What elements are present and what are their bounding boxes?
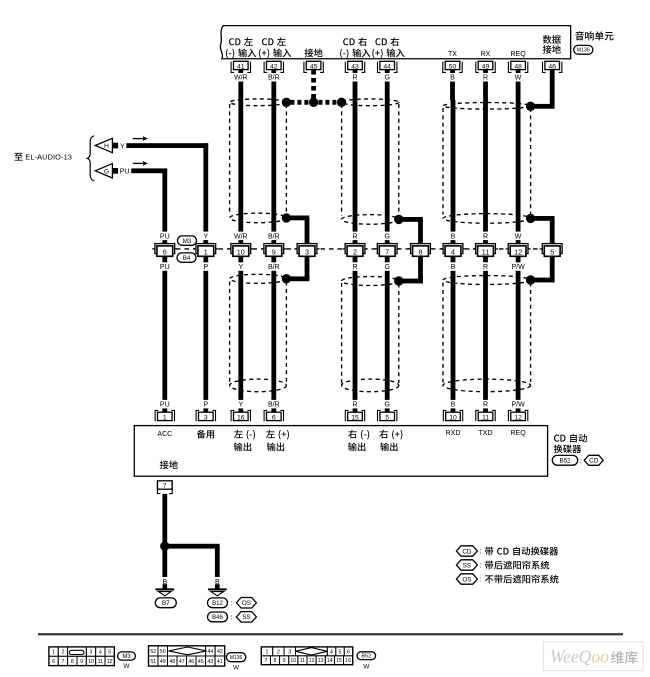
wire colour label P/W (below connector row) (512, 262, 524, 271)
connector oval M136 (footer) (226, 653, 245, 662)
legend text 带后遮阳帘系统 (485, 561, 549, 570)
svg-text:3: 3 (204, 414, 208, 421)
legend tag CD (456, 546, 477, 556)
pin 12 of CD changer (508, 410, 527, 421)
svg-text:5: 5 (385, 414, 389, 421)
svg-text:W/R: W/R (234, 233, 248, 240)
wire colour label B/R (top) (268, 73, 280, 82)
legend tag SS (456, 560, 477, 570)
svg-text:W: W (515, 75, 522, 82)
svg-text:RXD: RXD (446, 430, 461, 437)
label CD left (+) input (262, 37, 286, 45)
svg-text:3: 3 (90, 650, 93, 656)
svg-text:B: B (450, 75, 455, 82)
wire colour label R (top) (352, 73, 359, 82)
wire colour label G (bottom) (384, 400, 391, 409)
svg-text:6: 6 (52, 659, 55, 665)
svg-text:41: 41 (217, 659, 223, 665)
wire colour label Y (below connector row) (237, 262, 244, 271)
svg-text:B: B (451, 264, 456, 271)
svg-text:WeeQoo: WeeQoo (550, 646, 609, 666)
wire colour label R (above connector row) (352, 232, 359, 241)
in-line connector terminal 11 (473, 248, 476, 250)
legend text 不带后遮阳帘系统 (485, 575, 559, 584)
svg-text:8: 8 (71, 659, 74, 665)
wire R pin49 to connector11 to pin11 (col H) (483, 70, 488, 244)
shield cylinder lower-middle (341, 283, 343, 384)
svg-text:2: 2 (61, 650, 64, 656)
svg-text:B12: B12 (212, 601, 223, 607)
svg-text:2: 2 (353, 247, 357, 256)
jumper middle shield to connector 8 (below row) (394, 276, 403, 285)
CD auto changer box (134, 426, 547, 477)
svg-text:3: 3 (305, 247, 309, 256)
label left(-) output (234, 430, 255, 440)
wire colour label P (below connector row) (202, 262, 209, 271)
svg-text:M136: M136 (230, 655, 243, 661)
svg-text:W: W (515, 233, 522, 240)
wire colour label R (top) (482, 73, 489, 82)
connector oval M3 (178, 236, 197, 245)
in-line connector terminal 3 (294, 248, 297, 250)
connector layout B52 (CD changer 16-pin) (261, 647, 272, 656)
label ground (接地) pin45 (305, 49, 323, 58)
in-line connector terminal 12 (506, 248, 509, 250)
in-line connector terminal 8 (408, 248, 411, 250)
svg-text:7: 7 (264, 658, 267, 664)
svg-text:REQ: REQ (511, 430, 527, 437)
svg-text:4: 4 (330, 649, 333, 655)
svg-text:TXD: TXD (479, 430, 493, 437)
svg-text:B: B (451, 402, 456, 409)
wire P connector1 down to pin3 (203, 256, 208, 411)
svg-text:R: R (352, 233, 357, 240)
svg-text:48: 48 (514, 63, 522, 70)
ground name oval B7 (155, 598, 176, 608)
shield cylinder upper-right (around B,R,W) (442, 108, 444, 215)
svg-text:11: 11 (98, 659, 103, 665)
svg-text:EL-AUDIO-13: EL-AUDIO-13 (25, 152, 72, 161)
svg-text:R: R (352, 75, 357, 82)
svg-text:48: 48 (169, 659, 175, 665)
wire B/R pin42 to connector9 to pin6 (col D) (271, 70, 276, 244)
svg-text:5: 5 (550, 247, 554, 256)
svg-text:9: 9 (80, 659, 83, 665)
svg-text:PU: PU (160, 264, 170, 271)
wire colour label G (top) (384, 73, 391, 82)
wire PU from triangle G to connector 6 (131, 168, 167, 173)
jumper left shield to connector 3 (below row) (282, 274, 291, 283)
wire Y from triangle H to connector 1 (126, 143, 208, 148)
pin 44 of audio unit (378, 62, 397, 73)
brace (87, 136, 94, 181)
wire colour label PU (bottom) (160, 400, 170, 409)
svg-text:W: W (363, 664, 370, 671)
wire W pin48 to connector12 to pin12 (col I) (516, 70, 521, 244)
svg-text:H: H (104, 143, 109, 150)
svg-text:42: 42 (217, 649, 223, 655)
svg-text:43: 43 (207, 659, 213, 665)
wire colour label B (bottom) (450, 400, 457, 409)
svg-text:14: 14 (327, 658, 333, 664)
svg-text:15: 15 (336, 658, 342, 664)
connector oval M3 (footer) (118, 652, 136, 660)
svg-text:PU: PU (120, 169, 130, 176)
svg-text:B/R: B/R (268, 264, 280, 271)
option tag OS (236, 598, 256, 609)
svg-text:12: 12 (107, 659, 113, 665)
svg-text::: : (231, 615, 233, 622)
svg-text:G: G (384, 264, 389, 271)
svg-text:P/W: P/W (511, 264, 525, 271)
svg-text:4: 4 (99, 650, 102, 656)
legend tag OS (456, 574, 477, 584)
label CD left (-) input (229, 37, 253, 45)
wire colour label P (bottom) (202, 400, 209, 409)
svg-text:43: 43 (351, 63, 359, 70)
wire colour label W/R (above connector row) (235, 232, 247, 241)
svg-text:45: 45 (198, 659, 204, 665)
pin 6 of CD changer (264, 410, 283, 421)
label CD right (+) input (375, 37, 399, 46)
svg-text:B/R: B/R (268, 233, 280, 240)
wire colour label P/W (bottom) (512, 400, 524, 409)
wire colour label PU (below connector row) (160, 262, 170, 271)
ground name oval B46 (208, 612, 228, 622)
ground name oval B12 (208, 598, 228, 608)
svg-text:10: 10 (449, 414, 457, 421)
audio unit box (音响单元) (220, 26, 570, 59)
in-line connector terminal 2 (342, 248, 345, 250)
jumper right shield to connector 5 (below row) (526, 275, 535, 284)
wire colour label B (top) (449, 73, 456, 82)
svg-text:11: 11 (482, 247, 489, 256)
pin 50 of audio unit (443, 62, 462, 73)
page connector triangle H (95, 138, 112, 152)
svg-text:W: W (123, 663, 130, 670)
arrow (direction) on PU wire (133, 162, 143, 164)
pin 1 of CD changer (155, 410, 174, 421)
connector oval B52 (footer) (357, 652, 376, 660)
ground symbol right (215, 584, 220, 588)
svg-text:P: P (203, 402, 208, 409)
svg-text:B52: B52 (361, 654, 371, 660)
wire colour label PU (above connector row) (160, 232, 170, 241)
label right(-) output (348, 430, 369, 440)
svg-text:M3: M3 (183, 238, 192, 245)
pin 16 of CD changer (231, 410, 250, 421)
wire colour label R (bottom) (352, 400, 359, 409)
svg-text:44: 44 (208, 649, 214, 655)
in-line connector terminal 1 (193, 248, 196, 250)
svg-text:Y: Y (238, 264, 243, 271)
in-line connector terminal 7 (375, 248, 378, 250)
wire colour label W (above connector row) (515, 232, 522, 241)
svg-text:SS: SS (463, 562, 471, 569)
wire colour label G (above connector row) (384, 232, 391, 241)
ground wire B with junction (162, 494, 167, 577)
svg-text:3: 3 (288, 649, 291, 655)
svg-text:CD: CD (462, 548, 472, 555)
svg-text:R: R (352, 264, 357, 271)
in-line connector terminal 4 (440, 248, 443, 250)
pin 42 of audio unit (264, 62, 283, 73)
svg-text:Y: Y (238, 402, 243, 409)
shield drain wire from pin45 (thick dashed) (311, 70, 316, 100)
wire colour label R (bottom) (482, 400, 489, 409)
svg-text:B4: B4 (183, 255, 191, 262)
svg-text:46: 46 (548, 63, 556, 70)
svg-text:45: 45 (310, 63, 318, 70)
svg-text:P: P (203, 264, 208, 271)
svg-text:12: 12 (514, 247, 522, 256)
shield cylinder upper-left (around W/R,B/R) (229, 104, 231, 215)
in-line connector terminal 9 (261, 248, 264, 250)
svg-text:G: G (384, 402, 389, 409)
in-line connector dashed separator line (176, 248, 543, 250)
in-line connector terminal 10 (228, 248, 231, 250)
svg-text::: : (580, 458, 582, 465)
pin 49 of audio unit (476, 62, 495, 73)
svg-text:52: 52 (150, 649, 156, 655)
connector oval M136 (top right) (574, 45, 593, 54)
shield drain bus with junction dots (290, 100, 337, 105)
svg-text:1: 1 (204, 247, 208, 256)
wire colour label W/R (top) (235, 73, 247, 82)
svg-text:SS: SS (242, 614, 250, 621)
svg-text:41: 41 (237, 63, 245, 70)
connector oval B4 (177, 253, 196, 262)
wire colour label B (below connector row) (450, 262, 457, 271)
svg-text:1: 1 (52, 650, 55, 656)
wire colour label B/R (below connector row) (268, 262, 280, 271)
jumper left shield to connector 3 (above row) (282, 213, 291, 222)
svg-text:4: 4 (451, 247, 455, 256)
wire B pin50 to connector4 to pin10 (col G) (450, 70, 455, 100)
pin 43 of audio unit (345, 62, 364, 73)
svg-text:10: 10 (237, 247, 245, 256)
svg-text:16: 16 (345, 658, 351, 664)
svg-text:10: 10 (290, 658, 296, 664)
option tag SS (236, 612, 256, 623)
svg-text:7: 7 (163, 483, 167, 490)
label 至 EL-AUDIO-13 (14, 153, 22, 161)
connector oval B52 (right of box) (552, 455, 577, 465)
jumper middle shield to connector 8 (above row) (394, 215, 403, 224)
svg-text:B/R: B/R (268, 402, 280, 409)
svg-text:P/W: P/W (511, 402, 525, 409)
arrow (direction) on Y wire (133, 138, 143, 140)
svg-text:OS: OS (242, 600, 251, 607)
label left(+) output (266, 430, 289, 440)
svg-text:Y: Y (203, 233, 208, 240)
svg-text:2: 2 (277, 649, 280, 655)
pin 10 of CD changer (443, 410, 462, 421)
svg-text:44: 44 (383, 63, 391, 70)
svg-text:B7: B7 (162, 600, 170, 607)
svg-text:PU: PU (160, 233, 170, 240)
svg-text:9: 9 (272, 247, 276, 256)
svg-text:1: 1 (266, 649, 269, 655)
label data ground (数据接地) (543, 35, 561, 44)
svg-text:6: 6 (272, 414, 276, 421)
shield cylinder lower-left (229, 282, 231, 384)
svg-text:B/R: B/R (268, 75, 280, 82)
svg-text:CD: CD (589, 458, 599, 465)
svg-text:5: 5 (108, 650, 111, 656)
svg-text:G: G (384, 233, 389, 240)
wire colour label G (below connector row) (384, 262, 391, 271)
svg-text:REQ: REQ (511, 51, 527, 58)
svg-text:B46: B46 (212, 615, 223, 621)
svg-text:8: 8 (274, 658, 277, 664)
svg-text::: : (480, 563, 482, 570)
svg-text:47: 47 (179, 659, 185, 665)
svg-text:42: 42 (270, 63, 278, 70)
svg-text::: : (480, 549, 482, 556)
svg-text:M3: M3 (122, 654, 131, 660)
svg-text:5: 5 (339, 649, 342, 655)
svg-text:50: 50 (449, 63, 457, 70)
audio unit name 音响单元 (575, 31, 613, 40)
svg-text:6: 6 (163, 247, 167, 256)
svg-text:6: 6 (347, 649, 350, 655)
pin 3 of CD changer (196, 410, 215, 421)
option tag CD (584, 455, 603, 465)
ground symbol left (163, 584, 168, 588)
svg-text:7: 7 (385, 247, 389, 256)
svg-text:9: 9 (283, 658, 286, 664)
wire colour label W (top) (515, 73, 522, 82)
svg-text:10: 10 (88, 659, 94, 665)
svg-text:Y: Y (120, 143, 125, 150)
connector layout M3 (12-pin) (49, 647, 58, 656)
svg-text:R: R (352, 402, 357, 409)
CD changer name CD自动换碟器 (554, 434, 587, 443)
svg-text:12: 12 (309, 658, 315, 664)
svg-text:12: 12 (514, 414, 522, 421)
svg-text:51: 51 (150, 659, 156, 665)
svg-text:R: R (483, 233, 488, 240)
svg-text:W/R: W/R (234, 75, 248, 82)
wire colour label Y (above connector row) (202, 232, 209, 241)
wire colour label R (below connector row) (482, 262, 489, 271)
wire R pin43 to connector2 to pin15 (col E) (353, 70, 358, 244)
svg-text:15: 15 (351, 414, 359, 421)
shield cylinder lower-right (442, 283, 444, 383)
label CD right (-) input (343, 37, 367, 46)
wire colour label R (above connector row) (482, 232, 489, 241)
page connector triangle G (95, 164, 112, 178)
in-line connector terminal 6 (152, 248, 155, 250)
separator line (38, 633, 623, 635)
svg-text:8: 8 (419, 247, 423, 256)
pin 41 of audio unit (231, 62, 250, 73)
svg-text:R: R (483, 402, 488, 409)
wire W/R pin41 to connector10 to pin16 (col C) (238, 70, 243, 244)
svg-text:49: 49 (160, 659, 166, 665)
svg-text:ACC: ACC (157, 431, 172, 438)
svg-text:R: R (483, 264, 488, 271)
svg-text::: : (480, 577, 482, 584)
svg-text:1: 1 (163, 414, 167, 421)
svg-text:OS: OS (462, 576, 471, 583)
svg-text:R: R (483, 75, 488, 82)
svg-text:M136: M136 (577, 48, 590, 54)
svg-text:7: 7 (61, 659, 64, 665)
wire colour label R (below connector row) (352, 262, 359, 271)
label right(+) output (379, 430, 402, 440)
svg-text:11: 11 (300, 658, 305, 664)
label 接地 (160, 460, 178, 469)
svg-text::: : (231, 601, 233, 608)
wire colour label Y (bottom) (237, 400, 244, 409)
wire colour label B/R (above connector row) (268, 232, 280, 241)
pin 7 (ground) of CD changer (157, 481, 172, 494)
svg-text:PU: PU (160, 402, 170, 409)
svg-text:49: 49 (482, 63, 490, 70)
svg-text:G: G (384, 75, 389, 82)
svg-text:B: B (451, 233, 456, 240)
svg-text:11: 11 (482, 414, 489, 421)
svg-text:B52: B52 (559, 458, 571, 465)
svg-text:16: 16 (237, 414, 245, 421)
svg-text:46: 46 (188, 659, 194, 665)
pin 11 of CD changer (476, 410, 495, 421)
wire data ground pin46 to right shield (550, 70, 555, 109)
pin 5 of CD changer (378, 410, 397, 421)
watermark WeeQoo weiku (543, 642, 643, 671)
svg-text:TX: TX (448, 51, 457, 58)
pin 15 of CD changer (345, 410, 364, 421)
pin 48 of audio unit (508, 62, 527, 73)
svg-text:W: W (233, 665, 240, 672)
svg-text:RX: RX (481, 51, 491, 58)
wire colour label B/R (bottom) (268, 400, 280, 409)
wire G pin44 to connector7 to pin5 (col F) (385, 70, 390, 244)
label 备用 (197, 430, 214, 439)
pin 45 of audio unit (304, 62, 323, 73)
jumper right shield to connector 5 (above row) (526, 214, 535, 223)
connector layout M136 (audio unit) (149, 646, 159, 656)
wire PU connector6 down to pin1 (162, 256, 167, 411)
legend text 带CD自动换碟器 (485, 547, 558, 556)
in-line connector terminal 5 (540, 248, 543, 250)
wire colour label B (above connector row) (450, 232, 457, 241)
svg-text:13: 13 (318, 658, 324, 664)
shield cylinder upper-middle (around R,G) (341, 104, 343, 216)
svg-text:50: 50 (160, 649, 166, 655)
pin 46 of audio unit (543, 62, 562, 73)
svg-text:G: G (104, 168, 109, 175)
